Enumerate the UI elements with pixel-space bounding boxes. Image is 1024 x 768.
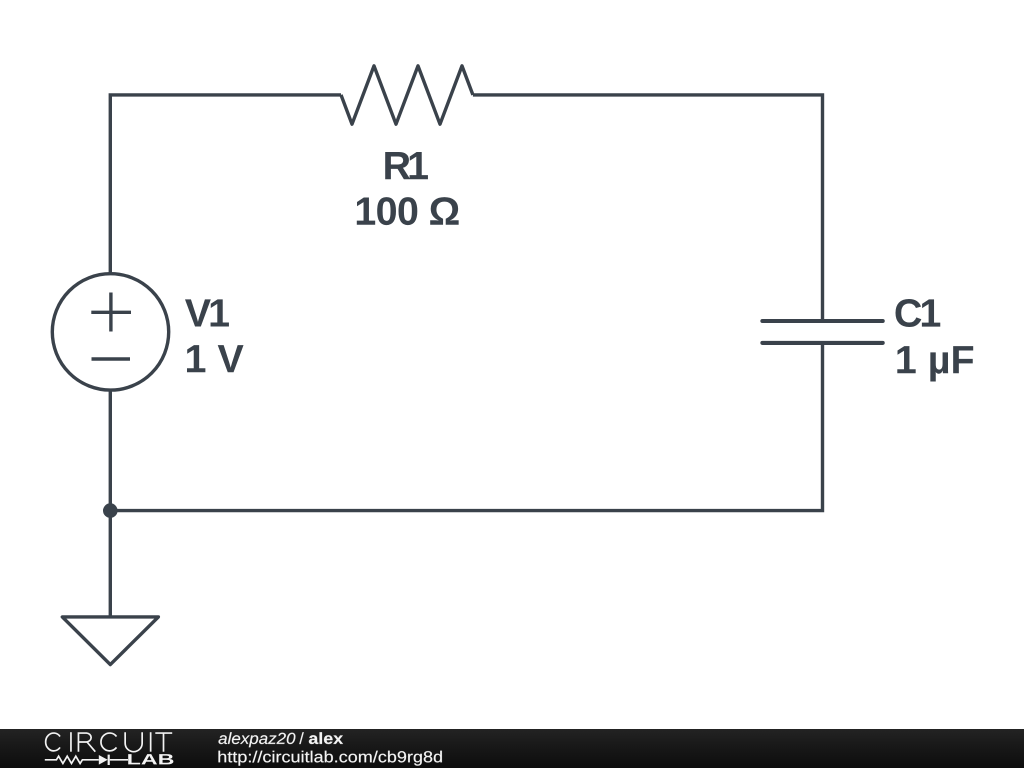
footer url text: circuitlab address <box>219 751 442 766</box>
footer slash: / <box>299 732 303 744</box>
V1 minus sign <box>92 357 131 360</box>
capacitor C1 plates <box>762 321 882 343</box>
source value 1 V <box>187 345 244 372</box>
logo wire to LAB <box>110 759 128 761</box>
capacitor value 1 µF <box>897 346 973 381</box>
ground symbol <box>62 617 158 665</box>
wire top-right corner (resistor to capacitor top) <box>473 95 823 321</box>
wire top-left corner (left vertical + top horizontal to resistor) <box>110 95 341 274</box>
logo CIRCUIT wordmark <box>46 732 173 752</box>
V1 plus sign <box>91 293 131 332</box>
logo resistor squiggle <box>45 756 99 763</box>
voltage source V1 circle <box>52 274 168 390</box>
logo LAB text: LAB <box>128 754 173 764</box>
footer circuit name bold: alex <box>309 732 343 744</box>
capacitor label C1 <box>896 299 941 327</box>
resistor value 100 Ω <box>357 197 459 225</box>
wire node to ground <box>109 511 112 617</box>
footer username italic: alexpaz20 <box>219 732 296 747</box>
footer bar <box>0 729 1024 768</box>
node junction dot <box>103 503 118 518</box>
wire bottom-right corner (capacitor bottom to node) <box>110 343 822 511</box>
source label V1 <box>185 299 229 326</box>
resistor R1 <box>341 66 473 124</box>
resistor label R1 <box>385 152 428 179</box>
logo diode <box>99 755 108 765</box>
wire V1 bottom to node <box>109 391 112 511</box>
